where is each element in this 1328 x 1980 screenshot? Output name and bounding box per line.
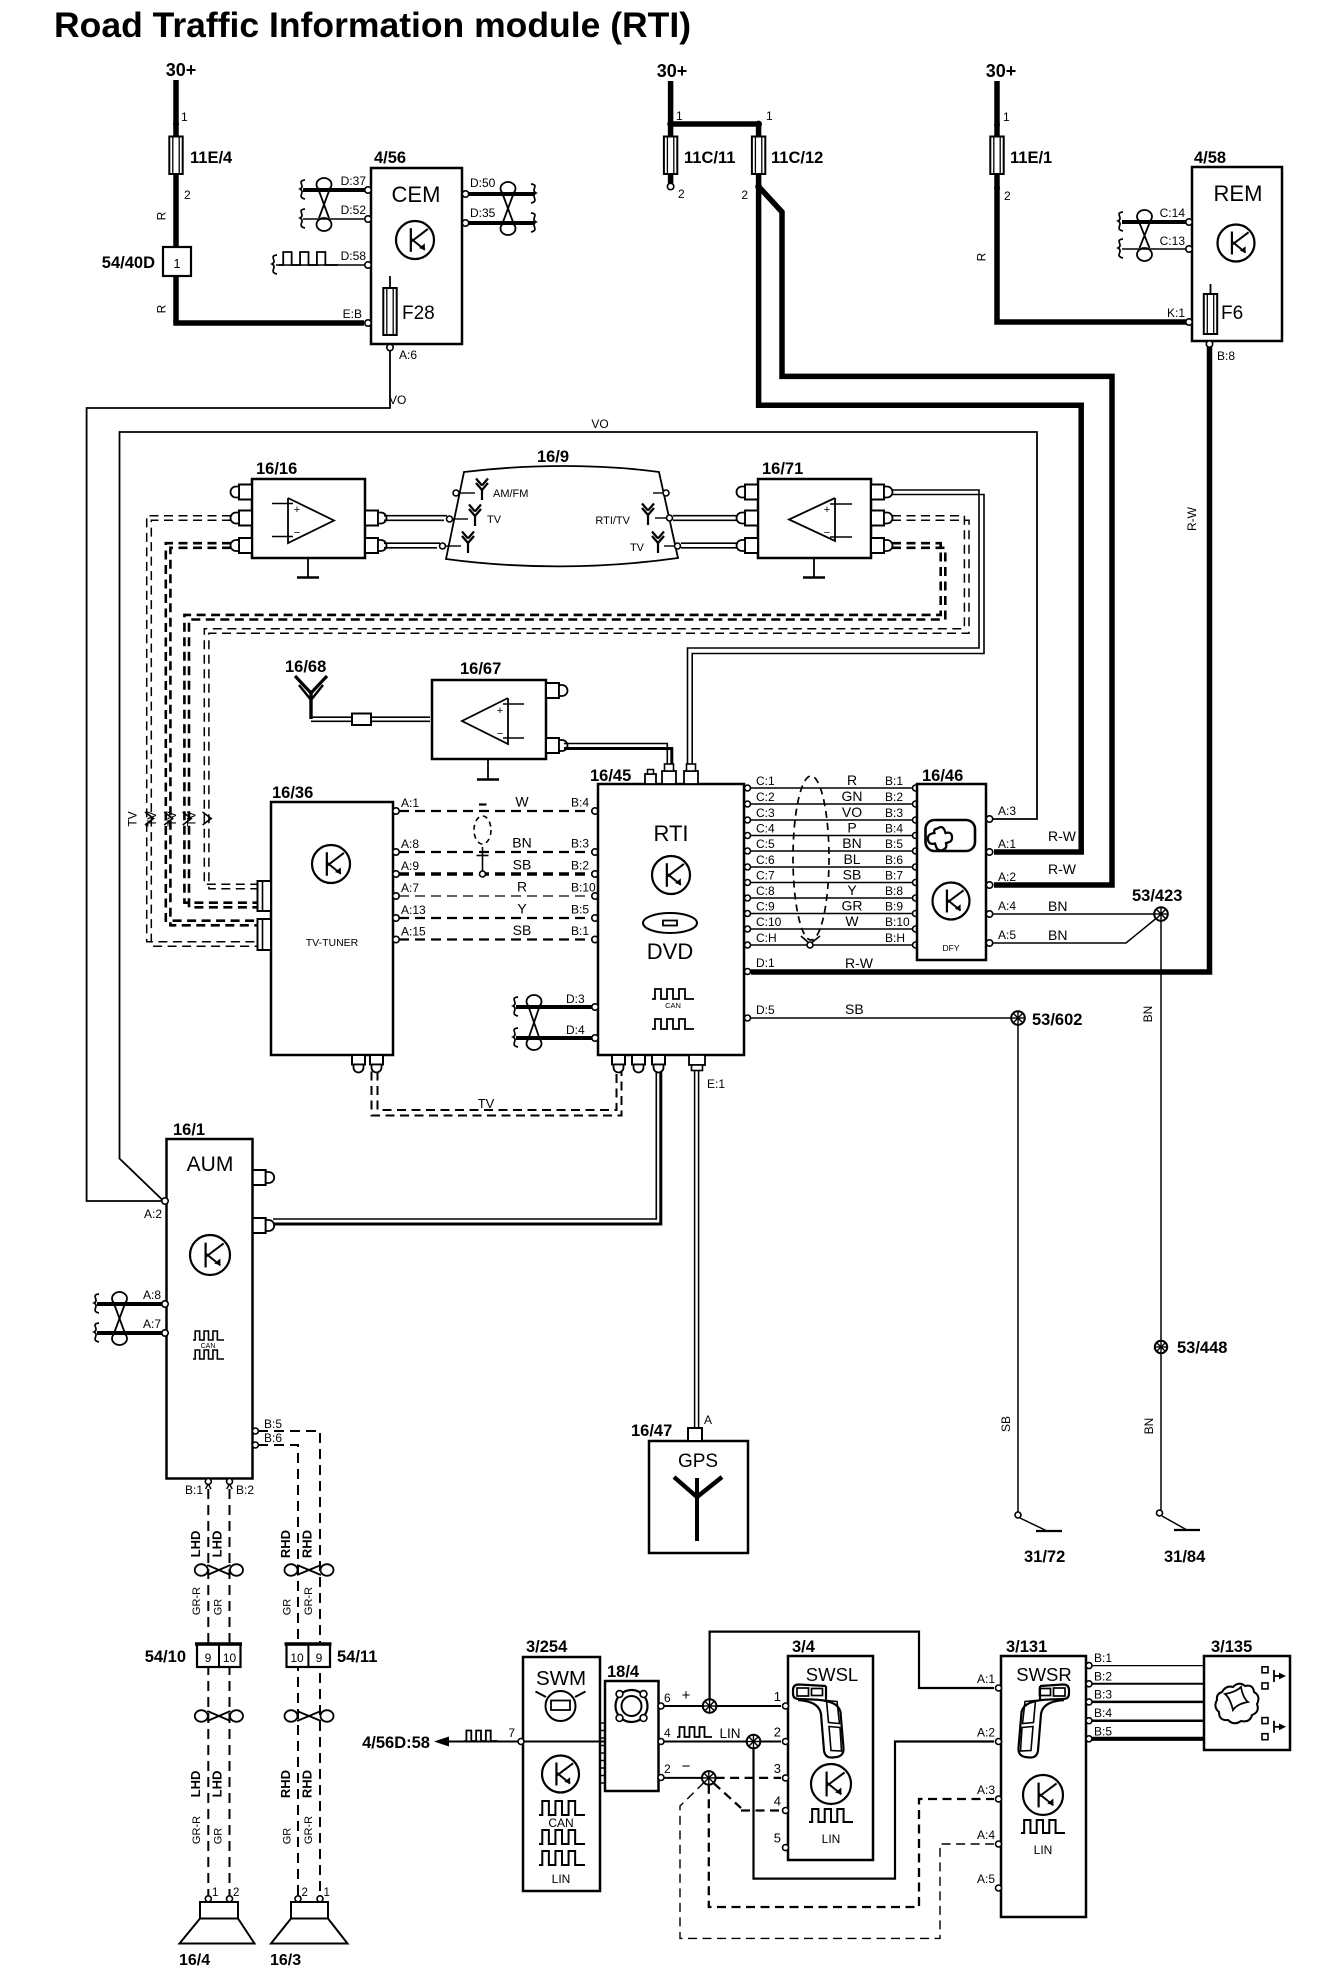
svg-text:B:3: B:3 [571, 837, 589, 851]
svg-text:1: 1 [212, 1887, 218, 1899]
svg-text:5: 5 [774, 1831, 781, 1846]
ground of 16/71 [803, 558, 825, 578]
stalk icon SWSL [793, 1685, 844, 1758]
svg-text:C:H: C:H [756, 931, 777, 945]
splice on minus wire [702, 1771, 716, 1785]
wire A:3 of 16/46 to VO [986, 804, 1016, 822]
LIN icon SWSR [1021, 1820, 1065, 1857]
labels LHD RHD lower [188, 1770, 314, 1798]
svg-text:B:5: B:5 [885, 837, 903, 851]
wire plus from pin 6 to SWSL pin 1 [664, 1687, 781, 1706]
svg-text:E:B: E:B [343, 307, 362, 321]
svg-text:2: 2 [1004, 189, 1011, 203]
svg-text:1: 1 [774, 1689, 781, 1704]
antenna AM/FM in 16/9 [453, 479, 528, 501]
twisted pair symbols upper [195, 1564, 334, 1576]
dashed coax TV from 16/36 to 16/45 [372, 1072, 622, 1116]
svg-text:BN: BN [1142, 1418, 1156, 1435]
svg-text:CAN: CAN [665, 1001, 681, 1010]
amplifier 16/16 [252, 460, 365, 558]
svg-text:TV: TV [478, 1096, 495, 1111]
splice on LIN wire [747, 1735, 761, 1749]
svg-text:B:2: B:2 [236, 1483, 254, 1497]
coax 16/67 to RTI top pin B [564, 744, 672, 771]
module REM 4/58 [1192, 149, 1282, 341]
svg-text:LHD: LHD [209, 1531, 224, 1558]
dashed wire minus to SWSL pin 4 [714, 1783, 782, 1811]
svg-text:A:6: A:6 [399, 348, 417, 362]
svg-text:BN: BN [512, 835, 531, 851]
svg-text:30+: 30+ [986, 61, 1017, 81]
fuse 11E/1 [990, 125, 1052, 174]
thick wire R-W from REM B:8 to RTI D:1 [751, 347, 1210, 972]
pin B:6 of AUM [252, 1431, 282, 1448]
svg-text:16/9: 16/9 [537, 448, 569, 466]
pin A:8 of AUM [143, 1288, 168, 1307]
svg-text:B:1: B:1 [571, 924, 589, 938]
rosette icon 3/135 [1215, 1684, 1258, 1724]
svg-text:6: 6 [664, 1691, 671, 1705]
svg-text:SWSL: SWSL [806, 1664, 858, 1685]
svg-text:31/84: 31/84 [1164, 1548, 1206, 1566]
svg-text:CAN: CAN [548, 1816, 573, 1830]
wire C:10 to B:10 [745, 913, 919, 932]
fuse F28 in CEM [383, 276, 434, 335]
svg-text:CAN: CAN [201, 1343, 216, 1350]
svg-text:AM/FM: AM/FM [493, 488, 528, 500]
svg-text:D:37: D:37 [341, 174, 367, 188]
dashed wire B:2 to speaker 16/4 pin2 [229, 1489, 231, 1895]
clock spring icon [616, 1690, 648, 1722]
svg-text:10: 10 [290, 1651, 304, 1665]
wire R from 11E/4 to 54/40D [155, 174, 177, 248]
amplifier triangle 16/16 [272, 498, 334, 543]
svg-text:D:4: D:4 [566, 1023, 585, 1037]
wire C:5 to B:5 [745, 835, 919, 854]
svg-text:AUM: AUM [187, 1153, 234, 1176]
pin D:35 of CEM [462, 206, 495, 226]
svg-text:B:1: B:1 [885, 774, 903, 788]
svg-text:11E/4: 11E/4 [190, 149, 233, 167]
pins A of SWSR [977, 1672, 1002, 1891]
svg-text:53/423: 53/423 [1132, 887, 1182, 905]
module GPS antenna 16/47 [631, 1422, 748, 1553]
pin A:7 of AUM [143, 1317, 168, 1336]
wire W from TV-tuner A:1 to RTI B:4 [393, 794, 598, 815]
svg-text:R: R [847, 772, 857, 788]
svg-text:A:9: A:9 [401, 859, 419, 873]
wire D:58 with square wave [272, 252, 365, 274]
svg-text:A:1: A:1 [401, 796, 419, 810]
connector 54/11 [285, 1644, 378, 1667]
svg-text:Y: Y [847, 882, 857, 898]
coax 16/9 RTI/TV to 16/71 [673, 516, 737, 521]
svg-text:A:4: A:4 [998, 899, 1016, 913]
svg-text:16/45: 16/45 [590, 767, 631, 785]
svg-text:E:1: E:1 [707, 1077, 725, 1091]
svg-text:16/16: 16/16 [256, 460, 297, 478]
svg-text:R: R [517, 879, 527, 895]
fuse 11C/11 [664, 124, 735, 174]
svg-text:11E/1: 11E/1 [1010, 149, 1052, 167]
svg-text:R-W: R-W [1048, 828, 1077, 844]
module 3/135 [1204, 1638, 1290, 1750]
pin C:13 of REM [1160, 234, 1193, 252]
wire C:4 to B:4 [745, 820, 919, 839]
wire pair D:3 D:4 twisted [513, 995, 592, 1050]
ground of 16/16 [297, 558, 319, 578]
output pins lower of 3/135 [1262, 1718, 1286, 1740]
svg-text:3/131: 3/131 [1006, 1638, 1047, 1656]
svg-text:VO: VO [591, 417, 608, 431]
thick wire branch to DFY A:2 [759, 187, 1112, 886]
shield ellipse around C wires [793, 776, 829, 948]
svg-text:LHD: LHD [188, 1531, 203, 1558]
svg-text:10: 10 [223, 1651, 237, 1665]
title [54, 5, 691, 45]
dashed wire minus to SWSL pin 3 [716, 1777, 781, 1779]
antenna cluster 16/9 window [446, 448, 678, 566]
wire C:1 to B:1 [745, 772, 919, 791]
svg-text:BN: BN [1048, 898, 1067, 914]
svg-text:RHD: RHD [299, 1770, 314, 1798]
LIN icon SWSL [809, 1809, 853, 1846]
splice 53/602 [1011, 1011, 1082, 1029]
pin E:1 of 16/45 [689, 1055, 725, 1091]
dashed coax 16/16 pin3 to TV-tuner lower connector [166, 543, 257, 925]
module SWM 3/254 [523, 1638, 600, 1891]
svg-text:54/40D: 54/40D [102, 254, 155, 272]
svg-text:18/4: 18/4 [607, 1663, 640, 1681]
wire R from 11E/1 to REM K:1 [975, 174, 1187, 322]
wire C:7 to B:7 [745, 867, 919, 886]
svg-text:P: P [847, 820, 856, 836]
pin 7 of SWM [508, 1726, 524, 1745]
wire minus from pin 2 [664, 1758, 702, 1778]
svg-text:A:4: A:4 [977, 1828, 995, 1842]
pins left of 16/16 [231, 485, 253, 554]
coax 16/16 to 16/9 lower [384, 543, 440, 548]
svg-text:2: 2 [664, 1762, 671, 1776]
svg-text:RHD: RHD [299, 1530, 314, 1558]
svg-text:Road Traffic Information modul: Road Traffic Information module (RTI) [54, 5, 691, 45]
coax from AUM to 16/45 bottom [273, 1072, 661, 1225]
svg-text:7: 7 [508, 1726, 515, 1740]
wire C:9 to B:9 [745, 898, 919, 917]
svg-text:RHD: RHD [278, 1770, 293, 1798]
svg-text:+: + [294, 504, 300, 516]
svg-text:BN: BN [1141, 1006, 1155, 1023]
svg-text:W: W [515, 794, 529, 810]
svg-text:BN: BN [1048, 927, 1067, 943]
wire C:8 to B:8 [745, 882, 919, 901]
svg-text:C:8: C:8 [756, 884, 775, 898]
CAN icon SWM [539, 1801, 585, 1844]
wire BN DFY A:4 to splice [986, 898, 1154, 917]
pin A:2 of AUM [144, 1198, 168, 1221]
svg-text:1: 1 [766, 109, 773, 123]
ground of 16/67 [477, 759, 499, 780]
wire R-W DFY A:2 [986, 861, 1076, 888]
pin A:6 of CEM [387, 344, 418, 362]
module clock spring 18/4 [605, 1663, 659, 1791]
svg-text:3/4: 3/4 [792, 1638, 816, 1656]
svg-text:B:3: B:3 [1094, 1687, 1112, 1701]
svg-text:LIN: LIN [1034, 1843, 1053, 1857]
supply 30+ middle [657, 61, 688, 124]
pin D:50 of CEM [462, 176, 495, 197]
svg-text:A: A [704, 1413, 712, 1427]
coax 16/68 to 16/67 with inline connector [311, 714, 430, 726]
module RTI DVD 16/45 [590, 767, 744, 1055]
svg-text:R: R [975, 252, 989, 261]
pins right of 16/67 [546, 683, 568, 753]
pin 2 of 18/4 [658, 1762, 671, 1781]
speaker 16/4 [179, 1887, 255, 1969]
svg-text:TV: TV [487, 514, 502, 526]
pin K:1 of REM [1167, 306, 1192, 325]
svg-text:LHD: LHD [188, 1771, 203, 1798]
pin 2 of 11C/12 [741, 183, 762, 202]
pin D:37 of CEM [341, 174, 372, 193]
pins coax right of AUM [253, 1170, 275, 1233]
pins bottom of 16/45 [612, 1055, 645, 1073]
svg-text:D:58: D:58 [341, 249, 367, 263]
dashed wire B:6 to speaker 16/3 pin2 [258, 1445, 298, 1895]
svg-text:B:10: B:10 [885, 915, 910, 929]
svg-text:RTI: RTI [653, 821, 688, 846]
svg-text:A:7: A:7 [401, 881, 419, 895]
svg-text:A:5: A:5 [998, 928, 1016, 942]
svg-text:SB: SB [513, 922, 532, 938]
CAN icon AUM [193, 1331, 224, 1359]
svg-text:16/47: 16/47 [631, 1422, 672, 1440]
thick wire 11C/12 to DFY A:1 [759, 174, 1082, 852]
svg-text:B:8: B:8 [885, 884, 903, 898]
svg-text:BN: BN [842, 835, 861, 851]
labels LHD RHD upper [188, 1530, 314, 1558]
transistor icon 16/45 [652, 856, 690, 894]
svg-text:1: 1 [181, 110, 188, 124]
svg-text:A:1: A:1 [977, 1672, 995, 1686]
svg-text:−: − [294, 527, 300, 539]
svg-text:GR-R: GR-R [303, 1587, 315, 1615]
TV direction arrows on dashed bundle [126, 811, 212, 826]
connector hatching SWM to 18/4 [599, 1723, 606, 1783]
svg-text:A:8: A:8 [401, 837, 419, 851]
module SWSL 3/4 [788, 1638, 873, 1860]
svg-text:9: 9 [205, 1651, 212, 1665]
amplifier 16/67 [432, 660, 546, 759]
svg-text:LIN: LIN [552, 1872, 571, 1886]
dashed coax 16/16 pin2 to TV-tuner lower connector [147, 516, 257, 947]
thin dashed wire minus lane to SWSR A:4 [680, 1783, 994, 1939]
svg-text:16/68: 16/68 [285, 658, 326, 676]
pin D:4 of 16/45 [566, 1023, 598, 1041]
svg-text:4: 4 [774, 1794, 781, 1809]
svg-text:−: − [497, 728, 503, 740]
svg-text:D:50: D:50 [470, 176, 496, 190]
svg-text:B:H: B:H [885, 931, 905, 945]
splice 53/448 [1155, 1339, 1228, 1357]
svg-text:2: 2 [741, 188, 748, 202]
svg-text:4: 4 [664, 1726, 671, 1740]
svg-text:A:7: A:7 [143, 1317, 161, 1331]
pin D:52 of CEM [341, 203, 372, 222]
pins B of SWSR [1086, 1651, 1112, 1742]
svg-text:GPS: GPS [678, 1451, 718, 1472]
svg-text:2: 2 [774, 1725, 781, 1740]
wire C:6 to B:6 [745, 851, 919, 870]
svg-text:GN: GN [842, 788, 863, 804]
pin 2 of 11E/1 [994, 185, 1011, 203]
svg-text:C:9: C:9 [756, 900, 775, 914]
transistor icon SWSR [1023, 1775, 1063, 1815]
svg-text:SB: SB [845, 1001, 864, 1017]
svg-text:3: 3 [774, 1761, 781, 1776]
svg-text:TV: TV [145, 811, 159, 826]
GPS antenna symbol [674, 1477, 722, 1541]
svg-text:B:3: B:3 [885, 806, 903, 820]
pin 2 of 11C/11 [667, 174, 685, 201]
dashed wire B:5 to speaker 16/3 pin1 [258, 1431, 320, 1895]
speaker 16/3 [270, 1887, 348, 1969]
wire BN down from 53/423 [1141, 921, 1161, 1341]
svg-text:B:2: B:2 [1094, 1669, 1112, 1683]
pin B:1 of AUM [185, 1479, 211, 1498]
pin 6 of 18/4 [658, 1691, 671, 1709]
transistor icon AUM [190, 1235, 230, 1275]
stalk icon SWSR [1018, 1685, 1069, 1758]
svg-text:C:4: C:4 [756, 822, 775, 836]
svg-text:16/67: 16/67 [460, 660, 501, 678]
twisted pair symbols lower [195, 1710, 334, 1722]
pin B:5 of AUM [252, 1417, 282, 1434]
pin B:8 of REM [1206, 341, 1235, 363]
svg-text:GR-R: GR-R [191, 1587, 203, 1615]
svg-text:B:7: B:7 [885, 869, 903, 883]
coax connector upper left of 16/36 [258, 881, 272, 911]
LIN icon SWM [539, 1851, 585, 1886]
antenna TV right in 16/9 [630, 532, 681, 555]
CAN icon 16/45 [652, 989, 694, 1029]
svg-text:C:2: C:2 [756, 790, 775, 804]
svg-text:W: W [845, 913, 859, 929]
wire R-W DFY A:1 [986, 828, 1076, 855]
svg-text:B:10: B:10 [571, 881, 596, 895]
svg-text:16/3: 16/3 [270, 1952, 301, 1969]
svg-text:3/254: 3/254 [526, 1638, 568, 1656]
svg-text:DFY: DFY [943, 943, 960, 953]
dashed wire minus lane to SWSR A:3 [709, 1785, 994, 1907]
svg-text:D:1: D:1 [756, 956, 775, 970]
wire LIN from pin 4 to SWSL pin 2 [677, 1726, 741, 1741]
svg-text:16/46: 16/46 [922, 767, 963, 785]
svg-text:LHD: LHD [209, 1771, 224, 1798]
svg-text:B:5: B:5 [571, 903, 589, 917]
splice on plus wire [703, 1699, 717, 1713]
svg-text:SWSR: SWSR [1016, 1664, 1072, 1685]
svg-text:RHD: RHD [278, 1530, 293, 1558]
pin E:B of CEM [343, 307, 372, 326]
wire BN from 53/448 to ground 31/84 [1142, 1354, 1163, 1517]
svg-text:B:4: B:4 [571, 796, 589, 810]
transistor icon SWSL [811, 1764, 851, 1804]
wire pair D:37 D:52 twisted [300, 178, 365, 231]
wire VO from CEM A:6 to AUM A:2 [87, 351, 407, 1201]
pin D:3 of 16/45 [566, 992, 598, 1010]
svg-text:−: − [682, 1758, 691, 1775]
svg-text:1: 1 [324, 1887, 330, 1899]
svg-text:54/10: 54/10 [145, 1648, 186, 1666]
svg-text:F28: F28 [402, 303, 435, 324]
svg-text:2: 2 [233, 1887, 239, 1899]
dashed coax 16/71 pin3 to TV-tuner upper connector [184, 543, 945, 907]
wire Y from TV-tuner A:13 to RTI B:5 [393, 901, 598, 922]
module TV-TUNER 16/36 [271, 784, 393, 1055]
pins right of 16/71 [871, 485, 893, 554]
svg-text:30+: 30+ [166, 60, 197, 80]
antenna TV left in 16/9 [447, 505, 502, 527]
svg-text:4/56D:58: 4/56D:58 [362, 1734, 430, 1752]
svg-text:Y: Y [517, 901, 527, 917]
svg-text:B:5: B:5 [1094, 1724, 1112, 1738]
wire SB from TV-tuner A:15 to RTI B:1 [393, 922, 598, 943]
svg-text:TV: TV [126, 811, 140, 826]
svg-text:GR: GR [213, 1828, 225, 1845]
module CEM 4/56 [371, 149, 462, 344]
supply 30+ right [986, 61, 1017, 125]
svg-text:SWM: SWM [536, 1667, 586, 1690]
arrow to 4/56D:58 [362, 1731, 498, 1753]
svg-text:GR-R: GR-R [191, 1816, 203, 1844]
labels GR-R GR lower [191, 1816, 315, 1844]
svg-text:54/11: 54/11 [337, 1648, 377, 1666]
module SWSR 3/131 [1001, 1638, 1086, 1917]
svg-text:1: 1 [173, 256, 180, 271]
coax 16/71 out to RTI top pin C [688, 490, 985, 770]
svg-text:C:1: C:1 [756, 774, 775, 788]
wire C:H to B:H [745, 931, 919, 948]
svg-text:R-W: R-W [845, 955, 874, 971]
svg-text:GR: GR [281, 1599, 293, 1616]
svg-text:D:3: D:3 [566, 992, 585, 1006]
svg-text:B:8: B:8 [1217, 349, 1235, 363]
pin 1 of 11E/1 [994, 110, 1010, 128]
svg-text:2: 2 [302, 1887, 308, 1899]
svg-text:B:6: B:6 [885, 853, 903, 867]
svg-text:C:14: C:14 [1160, 206, 1186, 220]
svg-text:VO: VO [389, 393, 406, 407]
svg-text:11C/12: 11C/12 [771, 149, 823, 167]
wire R from TV-tuner A:7 to RTI B:10 [393, 879, 598, 900]
svg-text:D:35: D:35 [470, 206, 496, 220]
pin D:5 of 16/45 wire SB [745, 1001, 1012, 1021]
svg-text:TV-TUNER: TV-TUNER [306, 937, 359, 949]
svg-text:SB: SB [513, 857, 532, 873]
svg-text:A:2: A:2 [977, 1726, 995, 1740]
svg-text:VO: VO [842, 804, 862, 820]
svg-text:A:2: A:2 [144, 1207, 162, 1221]
svg-text:TV: TV [185, 811, 199, 826]
ground 31/72 [1020, 1518, 1065, 1566]
svg-text:B:1: B:1 [185, 1483, 203, 1497]
coax E:1 to GPS antenna [695, 1070, 712, 1428]
svg-text:31/72: 31/72 [1024, 1548, 1065, 1566]
svg-text:4/58: 4/58 [1194, 149, 1226, 167]
wire 30+ to fuses 11C/11 11C/12 [667, 109, 773, 127]
pin top right of 16/9 [653, 490, 669, 496]
